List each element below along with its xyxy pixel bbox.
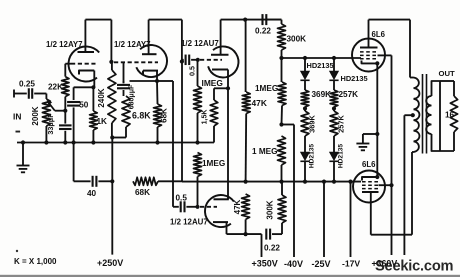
wire V2 cathode line to lower 0.5 cap bbox=[172, 81, 174, 207]
node D3 bottom bbox=[303, 180, 307, 184]
svg-text:22K: 22K bbox=[48, 83, 63, 92]
node V4 grid bbox=[195, 205, 199, 209]
wire V2 grid dashed from node A bbox=[114, 61, 158, 63]
grid rail to 6L6 upper bbox=[282, 57, 362, 59]
lower grid bus wire bbox=[182, 181, 361, 183]
resistor 369K upper bbox=[301, 90, 309, 107]
resistor 1.5K bbox=[214, 87, 228, 89]
node V3 cathode bbox=[226, 86, 230, 90]
terminal +360V bbox=[403, 115, 405, 255]
svg-text:0.22: 0.22 bbox=[255, 27, 271, 36]
diode HD2135 D4 bbox=[333, 136, 335, 152]
V6 plate bbox=[362, 191, 379, 193]
svg-text:-40V: -40V bbox=[284, 259, 303, 269]
page bottom edge artifact bbox=[0, 275, 460, 277]
capacitor 50 (cathode bypass) bbox=[67, 101, 80, 103]
T1 core bbox=[422, 74, 424, 154]
wire -25V drop bbox=[322, 180, 326, 184]
node feedback junction on +250V line bbox=[110, 179, 114, 183]
wire 680 cap top to V2 grid line bbox=[123, 62, 125, 83]
resistor 6.8K bbox=[122, 96, 130, 127]
resistor 68K feedback bbox=[133, 177, 158, 185]
triode V1 1/2 12AY7 bbox=[68, 46, 99, 81]
svg-text:6.8K: 6.8K bbox=[132, 111, 151, 121]
svg-text:6L6: 6L6 bbox=[362, 160, 376, 169]
node ground tap bbox=[375, 132, 379, 136]
resistor 1MEG bias lower bbox=[278, 136, 286, 165]
resistor 1MEG (V3 grid leak) bbox=[197, 60, 199, 86]
svg-text:Seekic.com: Seekic.com bbox=[375, 259, 454, 275]
svg-text:+250V: +250V bbox=[97, 258, 123, 268]
wire cathode to 50 cap bbox=[74, 86, 94, 88]
resistor 300K upper bbox=[281, 20, 283, 24]
resistor 16 load bbox=[453, 81, 455, 96]
svg-text:HD2135: HD2135 bbox=[309, 144, 316, 169]
wire wiper to 22K bottom and 33uuF bbox=[55, 110, 66, 112]
wire 40 cap to ground bus bbox=[73, 143, 75, 182]
node V3 grid bbox=[196, 58, 200, 62]
capacitor 0.22 lower bbox=[265, 229, 267, 240]
svg-text:200K: 200K bbox=[31, 106, 40, 125]
resistor 369K lower bbox=[301, 111, 309, 136]
node A: V1 plate / 240K / V2 grid bbox=[109, 60, 113, 64]
V2 bottom bar (plate) bbox=[143, 70, 158, 72]
node B: 240K/6.8K junction to +250V bbox=[110, 135, 114, 139]
resistor 68K (V2 load) bbox=[156, 81, 159, 104]
node G lower grid bus bbox=[279, 180, 283, 184]
svg-text:HD2135: HD2135 bbox=[338, 144, 345, 169]
svg-text:0.5: 0.5 bbox=[176, 194, 188, 203]
node C coupling bbox=[180, 59, 184, 63]
cathode line V5-V6 bbox=[376, 63, 378, 177]
resistor 257K lower bbox=[330, 111, 338, 136]
svg-text:50: 50 bbox=[79, 101, 89, 110]
V6 screen tap bbox=[379, 184, 392, 186]
svg-text:0.5: 0.5 bbox=[188, 66, 197, 76]
wire plate rail down to OPT primary bbox=[409, 20, 411, 78]
resistor 240K (plate load V1) bbox=[111, 62, 113, 70]
ground symbol left bbox=[21, 140, 25, 144]
T1 secondary bbox=[426, 96, 431, 134]
triode V3 1/2 12AU7 bbox=[208, 46, 238, 77]
svg-text:369K: 369K bbox=[312, 90, 332, 99]
node F -40V tap bbox=[279, 122, 283, 126]
svg-text:0.25: 0.25 bbox=[19, 80, 35, 89]
svg-text:IN: IN bbox=[13, 112, 21, 122]
feedback wire from divider bbox=[181, 62, 183, 182]
V5 screen wire to screen rail bbox=[378, 54, 392, 56]
svg-text:300K: 300K bbox=[287, 35, 307, 44]
V5 cathode bbox=[362, 61, 378, 64]
wire to -40V bbox=[282, 124, 295, 126]
svg-text:47K: 47K bbox=[233, 199, 242, 214]
wire V6 plate to OPT primary bottom bbox=[371, 234, 412, 236]
node D4 bottom bbox=[332, 180, 336, 184]
capacitor 0.5 lower bbox=[180, 201, 182, 212]
V1 grid (dashed) bbox=[71, 63, 96, 65]
node E upper grid rail bbox=[279, 56, 283, 60]
wire V3 plate rail bbox=[221, 19, 282, 21]
svg-text:1K: 1K bbox=[97, 117, 108, 126]
svg-text:16: 16 bbox=[445, 111, 455, 120]
V3 cathode bar bbox=[212, 69, 228, 71]
svg-text:1/2 12AY7: 1/2 12AY7 bbox=[114, 40, 151, 49]
svg-text:0.22: 0.22 bbox=[264, 244, 280, 253]
capacitor 680uuF bbox=[130, 80, 158, 82]
svg-text:300K: 300K bbox=[266, 200, 275, 219]
wire V3 cathode to V4 plate bbox=[227, 88, 229, 199]
resistor 300K lower bbox=[281, 223, 283, 234]
wire cap to pot bbox=[34, 93, 46, 95]
capacitor 0.25 bbox=[28, 88, 30, 99]
pentode V6 6L6 lower bbox=[353, 171, 385, 203]
V4 plate bar bbox=[214, 198, 229, 200]
wire +250V feed bbox=[111, 138, 113, 255]
V6 cathode bar bbox=[362, 177, 377, 181]
wiper arrow of 200K bbox=[49, 103, 55, 111]
V4 cathode bar bbox=[213, 221, 228, 223]
wire V5 plate top rail bbox=[369, 19, 411, 21]
svg-text:1/2 12AU7: 1/2 12AU7 bbox=[181, 39, 219, 48]
resistor 1MEG V4 grid leak bbox=[194, 153, 202, 177]
output transformer T1 primary bbox=[414, 78, 420, 153]
primary center tap bbox=[411, 113, 415, 117]
svg-text:K = X 1,000: K = X 1,000 bbox=[14, 257, 57, 266]
svg-text:1MEG: 1MEG bbox=[255, 84, 278, 93]
node H divider tap bbox=[244, 180, 248, 184]
capacitor 40 feedback bbox=[98, 180, 112, 182]
node K bbox=[332, 106, 336, 110]
wire V1 plate rail to node A bbox=[85, 19, 111, 21]
V3 grid dashed bbox=[200, 59, 222, 61]
capacitor 33uuF bbox=[63, 109, 67, 113]
svg-text:+350V: +350V bbox=[252, 259, 278, 269]
triode V4 1/2 12AU7 bbox=[205, 195, 234, 227]
V6 grid dashes bbox=[362, 181, 379, 183]
V5 grid dashes bbox=[360, 51, 378, 53]
svg-text:68K: 68K bbox=[160, 108, 169, 123]
ground bus bbox=[17, 142, 214, 144]
wire V2 top to coupling node bbox=[149, 19, 182, 21]
junction dots on ground bus bbox=[44, 140, 48, 144]
svg-text:-25V: -25V bbox=[312, 259, 331, 269]
V1 cathode bbox=[79, 71, 94, 75]
V1 plate bbox=[78, 51, 95, 53]
svg-text:OUT: OUT bbox=[439, 69, 456, 78]
node D on plate rail bbox=[243, 18, 247, 22]
resistor 1MEG bias upper bbox=[281, 58, 283, 82]
node -17V tap bbox=[348, 180, 352, 184]
svg-text:257K: 257K bbox=[337, 115, 346, 133]
resistor 47K chain upper bbox=[245, 20, 247, 92]
svg-text:33μμF: 33μμF bbox=[46, 113, 55, 135]
secondary wires to load bbox=[432, 81, 441, 96]
diode HD2135 D1 bbox=[303, 56, 307, 60]
wire +350V rail bbox=[227, 233, 262, 235]
node V1 cathode junction bbox=[91, 85, 95, 89]
wire rail to 300K bbox=[266, 19, 281, 21]
node I on +350V wire bbox=[244, 232, 248, 236]
svg-text:68K: 68K bbox=[135, 188, 150, 197]
diode HD2135 D3 bbox=[304, 136, 306, 152]
svg-text:47K: 47K bbox=[252, 98, 267, 108]
resistor 22K (grid stopper) bbox=[62, 77, 69, 97]
load loop bbox=[440, 80, 454, 82]
ground symbol right bbox=[362, 134, 364, 144]
svg-text:40: 40 bbox=[87, 189, 97, 198]
svg-text:HD2135: HD2135 bbox=[341, 74, 368, 83]
svg-text:IMEG: IMEG bbox=[202, 78, 223, 88]
resistor 47K chain lower bbox=[242, 194, 250, 219]
V5 plate bbox=[360, 47, 378, 49]
pentode V5 6L6 upper bbox=[352, 39, 385, 72]
V3 plate bar bbox=[211, 54, 229, 56]
svg-text:257K: 257K bbox=[339, 90, 359, 99]
svg-text:-17V: -17V bbox=[342, 259, 360, 269]
svg-text:1/2 12AU7: 1/2 12AU7 bbox=[170, 218, 208, 227]
capacitor 0.5 upper bbox=[182, 59, 184, 61]
V4 grid dashed bbox=[200, 206, 217, 208]
triode V2 1/2 12AY7 bbox=[136, 45, 167, 77]
node J bbox=[303, 106, 307, 110]
svg-text:240K: 240K bbox=[97, 88, 106, 107]
terminal +350V bbox=[261, 234, 263, 257]
resistor 1K (V1 cathode) bbox=[92, 87, 94, 111]
V2 top bar bbox=[142, 53, 157, 55]
svg-text:1/2 12AY7: 1/2 12AY7 bbox=[46, 40, 83, 49]
svg-text:6L6: 6L6 bbox=[372, 30, 386, 39]
wire: input lead bbox=[14, 93, 27, 95]
potentiometer 200K bbox=[45, 94, 47, 100]
svg-text:HD2135: HD2135 bbox=[307, 61, 334, 70]
svg-text:369K: 369K bbox=[308, 115, 317, 133]
svg-text:1,5K: 1,5K bbox=[202, 110, 209, 125]
resistor 257K upper bbox=[330, 90, 338, 107]
diode HD2135 D2 bbox=[332, 56, 336, 60]
svg-text:1MEG: 1MEG bbox=[202, 159, 225, 168]
wire 22K top to grid of V1 bbox=[64, 64, 66, 77]
svg-text:1 MEG: 1 MEG bbox=[252, 147, 277, 156]
capacitor 0.22 upper bbox=[261, 14, 263, 25]
node V2 plate junction bbox=[155, 79, 159, 83]
